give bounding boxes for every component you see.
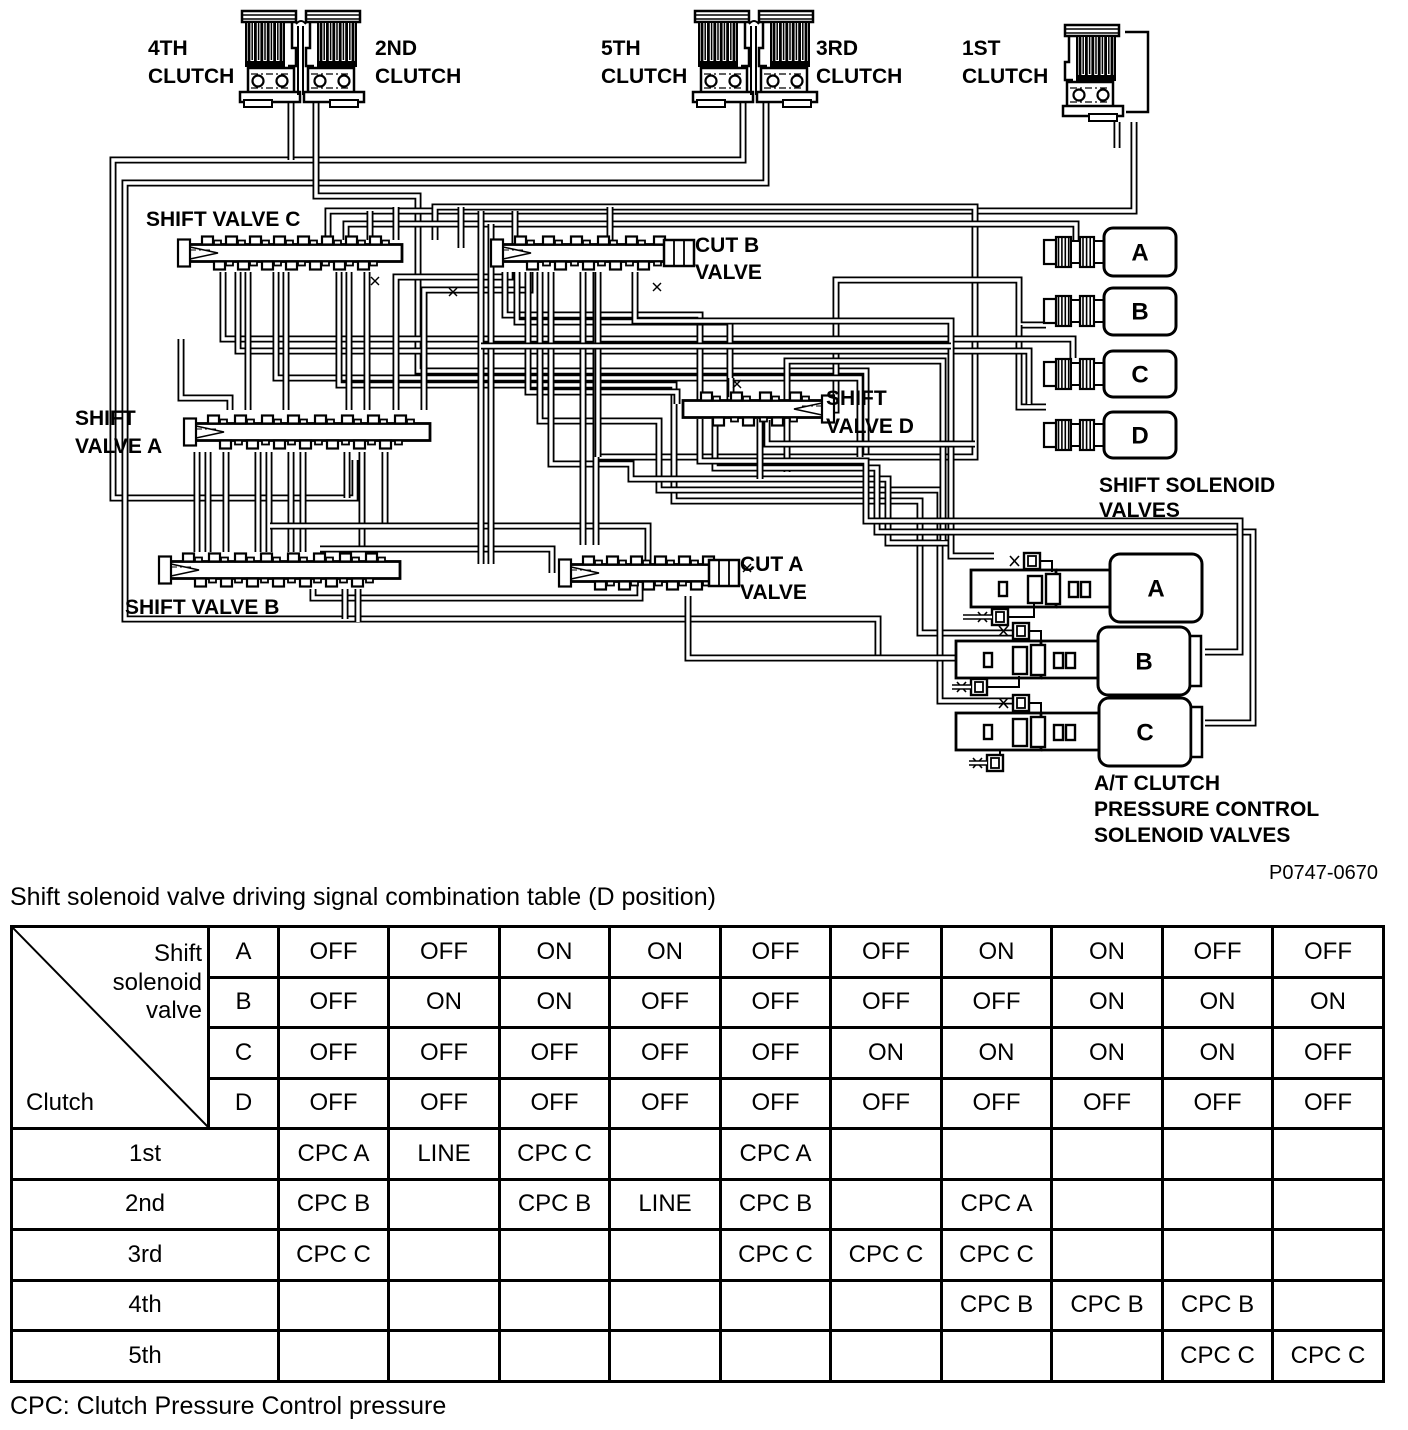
shift solenoid valve B box [1104,288,1176,335]
wire cut A top feed 3 [580,272,587,545]
cut A valve body [565,565,735,582]
svg-text:VALVE D: VALVE D [826,415,914,438]
wire cut B to valve D pipe 2 [517,272,730,401]
shift valve A body [190,424,430,441]
wire line H207 [435,207,975,457]
svg-text:1ST: 1ST [962,37,1001,60]
clutch 1ST bracket [1125,32,1148,112]
wire cut B to valve A pipe 1 [396,272,510,410]
wire shift solenoid C feed [223,272,1073,358]
A/T clutch pressure control solenoid valve A body [971,570,1056,607]
wire shift solenoid B feed [825,280,1046,410]
shift solenoid valve A box [1104,228,1176,276]
crossing mark [743,564,751,572]
svg-text:SHIFT: SHIFT [75,407,136,430]
wire cut B left stub [458,207,465,248]
wire valve A bottom stub 1 [344,452,351,498]
wire valve D label frame line [787,361,943,540]
clutch 2ND symbol [306,11,360,22]
clutch 4TH symbol [242,11,296,22]
wire line H549 to cut A [320,549,552,573]
svg-text:CLUTCH: CLUTCH [148,65,234,88]
cut B valve body [497,245,690,262]
wire cut B to valve D pipe 1 [505,272,700,401]
svg-text:3RD: 3RD [816,37,858,60]
svg-text:C: C [1136,720,1153,747]
clutch 3RD symbol [759,11,813,22]
check valve C bottom [987,755,1003,771]
crossing mark [371,277,379,285]
wire valve C top stub 1 [367,211,374,240]
crossing mark [449,288,457,296]
svg-text:CLUTCH: CLUTCH [601,65,687,88]
wire shift solenoid A feed [346,224,1076,240]
svg-text:A: A [1147,576,1164,603]
wire valve D top stub [728,378,735,397]
check valve B top [1013,623,1029,639]
svg-text:C: C [1131,362,1148,389]
wire valve A to valve B pipe 7 [300,452,307,552]
svg-text:SHIFT SOLENOID: SHIFT SOLENOID [1099,474,1275,497]
shift valve D body [683,401,828,418]
wire valve C to valve A pipe 3 [346,272,353,410]
wire valve C to valve A pipe 4 [364,272,371,410]
svg-text:4TH: 4TH [148,37,188,60]
shift solenoid valve D box [1104,412,1176,458]
clutch 5TH symbol [695,11,749,22]
wire shift solenoid D feed [1019,325,1046,407]
shift valve C body [184,245,402,262]
wire valve B to cut A line [313,582,640,598]
wire 2nd-clutch line [316,103,866,455]
wire line Y378 [276,272,860,457]
wire valve A to valve B pipe 5 [266,452,273,552]
wire valve C to valve A pipe 2 [283,272,290,410]
svg-text:B: B [1135,649,1152,676]
wire line Y346 [481,343,951,350]
check valve A bottom [992,609,1008,625]
svg-text:SHIFT: SHIFT [826,387,887,410]
check valve B bottom [971,679,987,695]
svg-text:CUT B: CUT B [695,234,759,257]
svg-text:SHIFT VALVE C: SHIFT VALVE C [146,208,300,231]
svg-text:CLUTCH: CLUTCH [816,65,902,88]
A/T clutch pressure control solenoid valve C box [1099,698,1191,766]
check valve A top [1024,553,1040,569]
A/T clutch pressure control solenoid valve B body [956,641,1041,678]
wire CPC A check feed [635,272,994,556]
svg-text:A/T CLUTCH: A/T CLUTCH [1094,772,1220,795]
wire 4th-clutch feed drop [288,103,295,160]
wire cut B to valve A pipe 2 [424,272,530,410]
wire 1st-clutch stub [1114,122,1121,148]
svg-text:VALVES: VALVES [1099,499,1180,522]
wire cut B down pipe x598 [595,272,602,457]
wire valve A bottom stub 2 [382,452,389,526]
shift solenoid valve C [1044,362,1058,386]
svg-text:B: B [1131,299,1148,326]
wire cut A top feed 1 [478,211,485,564]
wire line to CPC A check [551,272,951,543]
wire left drop x181 [181,339,230,410]
wire cut B top stub 1 [512,211,519,244]
A/T clutch pressure control solenoid valve B box [1098,627,1190,695]
svg-text:5TH: 5TH [601,37,641,60]
clutch pair joint 2 [749,21,759,24]
wire valve B bottom stub 1 [342,589,349,619]
svg-text:VALVE A: VALVE A [75,435,162,458]
wire CPC C box right line [715,419,1253,723]
wire cut B to valve D pipe 3 [528,272,677,404]
wire valve C top stub 2 [393,207,400,240]
wire valve A to valve B pipe 2 [205,452,212,552]
wire valve D bottom stub 3 [757,419,764,479]
wire cut B top stub 2 [607,207,614,244]
clutch pair joint [296,21,306,24]
shift solenoid valve A [1044,240,1058,264]
wire valve A to valve B pipe 8 [359,452,366,552]
shift solenoid valve C box [1104,351,1176,397]
wire valve A to valve B pipe 6 [288,452,295,552]
wire valve B bottom stub 2 [355,589,362,622]
svg-text:VALVE: VALVE [695,261,762,284]
A/T clutch pressure control solenoid valve C body [956,713,1041,750]
svg-text:CLUTCH: CLUTCH [375,65,461,88]
crossing mark [653,283,661,291]
svg-text:P0747-0670: P0747-0670 [1269,862,1378,884]
wire 5th-clutch feed line [113,103,743,498]
check valve C top [1013,695,1029,711]
svg-text:A: A [1131,240,1148,267]
svg-text:SOLENOID VALVES: SOLENOID VALVES [1094,824,1290,847]
crossing mark [733,380,741,388]
wire CPC B check feed staircase [339,272,1013,633]
svg-text:2ND: 2ND [375,37,417,60]
A/T clutch pressure control solenoid valve A box [1110,554,1202,622]
shift valve B body [165,562,400,579]
wire CPC B box right line [700,419,1240,652]
wire cut A top feed 2 [488,224,495,564]
wire CPC C check feed staircase [540,272,1013,701]
wire valve A to valve B pipe 3 [223,452,230,552]
svg-text:PRESSURE CONTROL: PRESSURE CONTROL [1094,798,1319,821]
shift solenoid valve D [1044,423,1058,447]
svg-text:D: D [1131,423,1148,450]
svg-text:CLUTCH: CLUTCH [962,65,1048,88]
wire line Y351 [238,272,1029,404]
svg-text:SHIFT VALVE B: SHIFT VALVE B [125,596,279,619]
shift solenoid valve B [1044,299,1058,323]
wire line H526 to cut A [270,526,648,564]
wire valve C to valve A pipe 1 [245,272,252,410]
wire cut A bottom line [688,596,955,658]
wire valve A to valve B pipe 1 [194,452,201,552]
svg-text:CUT A: CUT A [740,553,803,576]
svg-text:VALVE: VALVE [740,581,807,604]
wire 3rd-clutch long line [125,103,958,658]
wire cut A top feed 4 [593,272,600,545]
clutch 1ST symbol [1065,25,1119,36]
wire valve A to valve B pipe 4 [255,452,262,552]
wire valve D bottom right line [767,420,975,444]
wire 1st-clutch line to shift valve C [328,122,1134,240]
